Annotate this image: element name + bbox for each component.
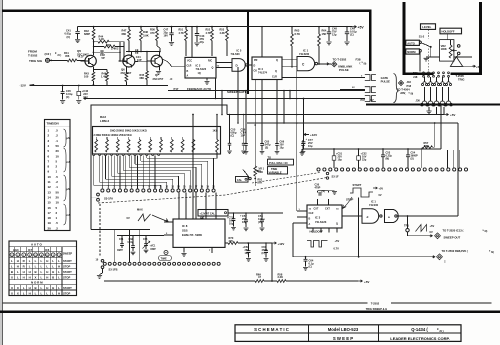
svg-text:PULL MAG ×10: PULL MAG ×10 xyxy=(269,161,288,165)
dashed link CAL to S3-1F region xyxy=(252,173,320,184)
diamond connector to T-4504 xyxy=(398,80,403,85)
wire long rail W1 y=98.5 xyxy=(84,97,88,99)
wire lower input to NAND xyxy=(282,66,297,68)
svg-text:T-2502: T-2502 xyxy=(28,53,38,57)
IC4 VCC pin wire to rail xyxy=(261,27,263,57)
+5V arrow in trigger box xyxy=(463,65,472,67)
svg-text:+5V: +5V xyxy=(358,25,365,29)
svg-text:Q7: Q7 xyxy=(155,73,159,77)
svg-text:10μ: 10μ xyxy=(308,144,313,148)
wire Q7 to IC2 xyxy=(162,59,168,62)
svg-text:μS: μS xyxy=(67,137,71,140)
svg-text:EHM-7I7- 528K: EHM-7I7- 528K xyxy=(182,233,203,237)
svg-text:0V: 0V xyxy=(127,216,130,220)
svg-text:IC7: IC7 xyxy=(28,248,33,252)
svg-text:14: 14 xyxy=(48,195,52,199)
svg-text:CLR: CLR xyxy=(309,212,314,215)
wire RA2 1K terminal into staircase xyxy=(216,154,218,158)
svg-text:74LS74: 74LS74 xyxy=(258,70,268,74)
triangle glyph in trigger box xyxy=(450,57,462,67)
svg-text:(C): (C) xyxy=(66,96,70,99)
svg-text:5P: 5P xyxy=(102,56,105,60)
trigger box bottom-right heavy edge xyxy=(451,72,482,74)
svg-text:0.7V: 0.7V xyxy=(334,247,340,251)
svg-text:/9): /9) xyxy=(364,63,367,66)
IC8 top pin stubs xyxy=(178,192,180,219)
wire from R57 up to W3 xyxy=(433,146,435,148)
heavy vertical divider at x=248 xyxy=(247,10,249,94)
svg-text:1MΩ 250KΩ 50KΩ 10KΩ 2.5KΩ: 1MΩ 250KΩ 50KΩ 10KΩ 2.5KΩ xyxy=(110,129,147,132)
svg-text:(: ( xyxy=(360,61,361,65)
svg-text:.1: .1 xyxy=(56,185,59,189)
svg-text:470: 470 xyxy=(150,31,155,35)
svg-text:2SC1757: 2SC1757 xyxy=(153,77,164,81)
svg-text:L: L xyxy=(46,264,48,268)
risers from S3-1FB contacts xyxy=(114,230,116,263)
svg-text:MAX: MAX xyxy=(137,208,143,212)
wire IC2 pin down to gnd cap xyxy=(245,91,247,140)
svg-text:P18: P18 xyxy=(407,84,412,88)
svg-text:IC 3: IC 3 xyxy=(315,216,321,220)
svg-text:START: START xyxy=(63,286,72,290)
wire vertical from W3 to NAND output xyxy=(457,123,459,216)
svg-text:Q-1434 (: Q-1434 ( xyxy=(411,327,428,332)
svg-text:22μ: 22μ xyxy=(362,158,367,161)
wire input to R41 xyxy=(50,59,68,61)
wire long rail W2 y=114.5 xyxy=(227,114,444,116)
IC2 VCC pin wire to rail xyxy=(191,27,193,58)
waveform at TP1 xyxy=(416,225,427,232)
RA2 bottom terminal loops xyxy=(92,154,95,156)
svg-text:2.2K: 2.2K xyxy=(278,275,284,279)
svg-text:20: 20 xyxy=(56,149,60,153)
svg-text:H: H xyxy=(46,259,48,263)
svg-text:50: 50 xyxy=(56,190,60,194)
svg-text:S1-2: S1-2 xyxy=(419,35,425,39)
svg-text:IC 4: IC 4 xyxy=(258,67,263,71)
wire vertical x=441 bus to +12V rail xyxy=(440,105,442,149)
svg-text:A U T O: A U T O xyxy=(31,243,43,247)
wires IC2 to IC5 gate xyxy=(216,61,232,63)
svg-text:TRIG SWEEP & H: TRIG SWEEP & H xyxy=(366,307,388,311)
outer box around RA2 and timing switch xyxy=(91,105,227,230)
dashed link LEVEL to switch xyxy=(428,29,430,38)
RA2 internal resistors xyxy=(95,140,98,152)
svg-text:PULSE: PULSE xyxy=(339,68,349,72)
svg-text:100: 100 xyxy=(84,75,89,79)
svg-text:IC 5: IC 5 xyxy=(237,49,242,53)
svg-text:10μ: 10μ xyxy=(280,147,285,150)
svg-text:B: B xyxy=(11,270,13,274)
svg-text:12: 12 xyxy=(48,185,52,189)
svg-text:CAL: CAL xyxy=(237,178,243,182)
svg-text:NORM: NORM xyxy=(407,50,416,54)
svg-text:+12V: +12V xyxy=(310,133,317,137)
svg-text:H: H xyxy=(29,286,31,290)
svg-text:74LS123: 74LS123 xyxy=(196,67,207,71)
svg-text:+12V: +12V xyxy=(278,242,285,246)
svg-text:L: L xyxy=(41,275,43,279)
svg-text:H: H xyxy=(29,270,31,274)
vertical wire x=255 from IC4 to VR1 xyxy=(254,80,256,167)
svg-text:CXT: CXT xyxy=(314,207,319,210)
svg-text:H: H xyxy=(29,291,31,295)
connector F19 J19 upper xyxy=(365,75,376,81)
switch S3-1F contact row xyxy=(317,168,320,171)
svg-text:μS: μS xyxy=(67,188,71,191)
svg-text:Q: Q xyxy=(212,66,214,69)
svg-text:P37: P37 xyxy=(361,99,366,102)
svg-text:10: 10 xyxy=(56,201,60,205)
svg-text:(C): (C) xyxy=(231,134,235,138)
wire IC2 pin down to W1 xyxy=(215,78,217,99)
RA2 resistor network box xyxy=(93,127,221,155)
svg-text:H: H xyxy=(23,275,25,279)
svg-text:S1B: S1B xyxy=(182,229,188,233)
svg-text:13: 13 xyxy=(48,190,52,194)
svg-text:-O: -O xyxy=(170,78,173,81)
svg-text:HG3: HG3 xyxy=(13,248,19,252)
ground under bus xyxy=(428,107,430,111)
svg-text:.5: .5 xyxy=(56,221,59,225)
svg-text:IC 1: IC 1 xyxy=(371,200,376,204)
svg-text:H: H xyxy=(29,275,31,279)
svg-text:L: L xyxy=(46,291,48,295)
switch S3-1F wiper xyxy=(326,172,328,174)
svg-text:3.9K: 3.9K xyxy=(143,33,149,37)
transistor Q6 2SC1907 xyxy=(123,55,135,67)
ground under C41 xyxy=(75,40,80,43)
boxed label AUTO xyxy=(406,40,420,45)
svg-text:+5V: +5V xyxy=(335,239,340,243)
wire feedback to Q6 base xyxy=(123,42,125,61)
second output line to T-2502 xyxy=(293,256,434,258)
NAND gate IC1-D xyxy=(362,209,379,223)
svg-text:L: L xyxy=(23,291,25,295)
svg-text:.2: .2 xyxy=(56,226,59,230)
bottom heavy rule xyxy=(0,311,500,313)
svg-text:A: A xyxy=(309,223,311,226)
wire IC3 output to NAND D xyxy=(342,215,362,217)
svg-text:J36: J36 xyxy=(416,99,421,103)
svg-text:680P: 680P xyxy=(84,32,90,36)
boxed label LEVEL xyxy=(421,24,436,30)
svg-text:X: X xyxy=(11,291,13,295)
wire IC8 pin 2 extension left xyxy=(117,235,164,237)
svg-text:+5V: +5V xyxy=(379,187,384,190)
risers contacts 1-10 to RA2 terminal row xyxy=(101,156,103,189)
IC4 74LS74 box xyxy=(252,57,282,80)
svg-text:S W E E P: S W E E P xyxy=(333,336,353,341)
svg-text:CLR: CLR xyxy=(187,65,192,68)
svg-text:X: X xyxy=(17,291,19,295)
svg-text:Q: Q xyxy=(276,59,278,62)
svg-text:IC 1: IC 1 xyxy=(303,49,309,53)
mechanical dashed link down to S3-1FB xyxy=(99,204,101,256)
svg-text:6.7K: 6.7K xyxy=(295,32,301,36)
mechanical dashed link wiper to S3-1F xyxy=(98,178,327,204)
trigger box left heavy edge xyxy=(403,2,406,75)
svg-text:(C): (C) xyxy=(350,33,354,37)
svg-text:OMIT: OMIT xyxy=(117,250,123,252)
svg-text:mS: mS xyxy=(67,161,71,164)
wire x=193 from W2 down to IC8 xyxy=(192,115,194,220)
wire RA2 1K to W2 xyxy=(216,115,218,138)
IC8 left pin stubs xyxy=(164,221,173,223)
svg-text:P18: P18 xyxy=(413,71,418,75)
svg-text:LEADER ELECTRONICS CORP.: LEADER ELECTRONICS CORP. xyxy=(390,336,450,341)
IC8 bottom pins and ground xyxy=(183,247,185,252)
IC8 sweep generator box xyxy=(173,219,225,247)
wire NORM contact down to pin row xyxy=(419,52,421,71)
svg-text:Q: Q xyxy=(336,223,338,226)
svg-text:≡: ≡ xyxy=(444,260,446,264)
svg-text:L: L xyxy=(11,259,13,263)
svg-text:/9 ): /9 ) xyxy=(440,329,444,333)
svg-text:D: D xyxy=(254,64,256,67)
wire +5V rail left end into C41 xyxy=(77,27,79,32)
svg-text:X: X xyxy=(35,275,37,279)
svg-text:H: H xyxy=(46,275,48,279)
wire Q6 collector node xyxy=(130,52,132,56)
svg-text:STOP: STOP xyxy=(63,264,70,268)
wire NAND A output to vertical riser xyxy=(397,215,458,217)
wire across trigger box y=57 xyxy=(431,56,472,58)
svg-text:10d: 10d xyxy=(83,96,88,99)
svg-text:S3-1FA: S3-1FA xyxy=(104,196,113,200)
wire NAND out to unblank diamond xyxy=(318,63,331,65)
svg-text:H: H xyxy=(46,286,48,290)
svg-text:L: L xyxy=(58,259,60,263)
svg-text:TO T-2302: TO T-2302 xyxy=(333,57,347,61)
svg-text:B: B xyxy=(52,275,54,279)
wire from +12V box to caps xyxy=(228,212,283,214)
boxed label +12V AT CAL O xyxy=(198,210,228,217)
svg-text:TO T-4504: TO T-4504 xyxy=(397,88,410,92)
vertical wire x=272 to y281 line xyxy=(271,243,273,281)
svg-text:H: H xyxy=(17,259,19,263)
top heavy border bar xyxy=(2,9,372,12)
svg-text:T-2502: T-2502 xyxy=(371,301,380,305)
ground in trigger box xyxy=(424,58,429,61)
svg-text:/9 ): /9 ) xyxy=(58,53,62,57)
svg-text:H: H xyxy=(23,270,25,274)
svg-text:/9): /9) xyxy=(485,230,488,233)
svg-text:4.7K: 4.7K xyxy=(179,32,184,35)
resistor chain line y=281 with R69 R58 xyxy=(104,280,255,282)
svg-text:(C2 (: (C2 ( xyxy=(45,52,52,56)
svg-text:STOP: STOP xyxy=(63,291,70,295)
svg-text:TIME: TIME xyxy=(161,257,167,261)
wire rail +5V top y=26 xyxy=(78,26,352,28)
boxed label TIME VARIABLE xyxy=(268,167,288,174)
wire IC4 pin down to gnd cap x277 xyxy=(276,80,278,141)
svg-text:16V: 16V xyxy=(164,34,169,37)
left page margin strip xyxy=(0,0,2,345)
svg-text:.2: .2 xyxy=(56,134,59,138)
svg-text:mS: mS xyxy=(67,214,71,217)
risers from S3-1F row xyxy=(447,150,449,168)
diamond connector RB6 P20 xyxy=(437,254,443,260)
svg-text:1.4K: 1.4K xyxy=(101,75,107,79)
svg-text:Q: Q xyxy=(275,70,277,73)
svg-text:TO T-2520 IC13 (: TO T-2520 IC13 ( xyxy=(443,229,464,233)
wire Q7 collector xyxy=(159,52,161,56)
svg-text:H: H xyxy=(52,286,54,290)
wire feedback rail y=90.6 xyxy=(168,90,365,92)
staircase wiring from RA2 terminals to contacts 11-20 xyxy=(93,156,95,186)
left border line xyxy=(2,0,4,345)
svg-text:L: L xyxy=(58,270,60,274)
svg-text:11: 11 xyxy=(48,180,51,184)
svg-text:17: 17 xyxy=(48,211,52,215)
svg-text:1Q: 1Q xyxy=(198,72,201,75)
svg-text:10μ: 10μ xyxy=(338,158,343,161)
svg-text:L: L xyxy=(58,275,60,279)
svg-text:CLR: CLR xyxy=(272,75,277,78)
+5V arrow right of W2 xyxy=(443,107,445,115)
svg-text:T-2505: T-2505 xyxy=(456,74,465,78)
svg-text:H: H xyxy=(17,264,19,268)
svg-text:27K: 27K xyxy=(258,180,263,184)
resistor R70 470 and +12V arrow xyxy=(225,242,228,244)
wire IC2 pin down to W2 xyxy=(221,91,223,115)
wire IC4 Q output to NAND xyxy=(282,59,297,61)
wire from W1 down to +12V arrow xyxy=(303,99,305,135)
svg-text:J26(: J26( xyxy=(400,91,405,95)
ground under IC2 xyxy=(206,78,208,81)
svg-text:P36: P36 xyxy=(416,102,421,106)
svg-text:.1: .1 xyxy=(56,139,59,143)
svg-text:10: 10 xyxy=(48,175,52,179)
trigger box right heavy edge xyxy=(479,2,482,75)
svg-text:START: START xyxy=(63,259,72,263)
svg-text:N O R M: N O R M xyxy=(31,281,43,285)
svg-text:CK: CK xyxy=(254,69,258,72)
svg-text:VARIABLE: VARIABLE xyxy=(269,170,282,174)
svg-text:d: d xyxy=(367,215,369,219)
svg-text:TRIG SIG: TRIG SIG xyxy=(29,59,43,63)
bottom separator line with T-2502 note xyxy=(3,302,368,304)
svg-text:START: START xyxy=(63,270,72,274)
svg-text:C63: C63 xyxy=(143,238,148,241)
connector F19 J19 lower xyxy=(365,87,376,93)
transistor Q7 2SC1757 xyxy=(151,55,163,67)
heavy vertical divider right of main block xyxy=(369,10,372,71)
svg-text:.5: .5 xyxy=(56,129,59,133)
svg-text:16: 16 xyxy=(48,206,52,210)
svg-text:L: L xyxy=(41,259,43,263)
wire IC4 pin down to W3 x284 xyxy=(283,91,285,123)
svg-text:HOLDOFF: HOLDOFF xyxy=(442,30,455,34)
svg-text:74LS123: 74LS123 xyxy=(315,220,327,224)
arrow from +12V box to IC8 xyxy=(200,216,204,219)
svg-text:X: X xyxy=(11,286,13,290)
title block frame xyxy=(235,325,461,342)
svg-text:C61: C61 xyxy=(119,238,124,241)
svg-text:CXT: CXT xyxy=(325,207,330,210)
svg-text:L: L xyxy=(41,291,43,295)
svg-text:L: L xyxy=(17,270,19,274)
svg-text:2.5MΩ 500KΩ 100KΩ 25KΩ 5KΩ: 2.5MΩ 500KΩ 100KΩ 25KΩ 5KΩ xyxy=(94,134,132,137)
svg-text:.5: .5 xyxy=(56,175,59,179)
svg-text:L: L xyxy=(35,259,37,263)
svg-text:TRIG: TRIG xyxy=(458,78,464,82)
svg-text:L: L xyxy=(41,286,43,290)
wire long rail W3 y=123 xyxy=(247,122,458,124)
heavy bus line exiting right at y=104 xyxy=(366,103,500,105)
svg-text:74LS00: 74LS00 xyxy=(369,203,379,207)
ground under C48 xyxy=(326,42,331,45)
IC5 NAND gate xyxy=(232,59,245,72)
svg-text:TP1: TP1 xyxy=(404,223,409,227)
ground under C49 xyxy=(344,42,349,45)
svg-text:(C): (C) xyxy=(309,266,313,269)
resistor R49 680 Q6 emitter xyxy=(125,67,127,73)
svg-text:VCC: VCC xyxy=(187,60,192,63)
ground under S3-1FB wiper xyxy=(102,269,104,274)
svg-text:(S): (S) xyxy=(265,147,268,150)
svg-text:.2: .2 xyxy=(56,180,59,184)
NAND gate IC1-C xyxy=(297,57,315,71)
svg-text:SWEEP: SWEEP xyxy=(63,251,73,255)
IC3 bottom pins xyxy=(312,228,314,233)
svg-text:Q6: Q6 xyxy=(121,67,125,71)
wire Q6 to Q7 base xyxy=(135,60,152,63)
svg-text:L: L xyxy=(35,291,37,295)
svg-text:X: X xyxy=(11,275,13,279)
boxed label NORM xyxy=(406,49,420,54)
svg-text:/9): /9) xyxy=(491,251,494,254)
potentiometer VR2 100K with frame xyxy=(440,40,454,62)
input terminal xyxy=(46,58,50,62)
svg-text:A: A xyxy=(187,74,189,77)
brace for gate pulse group xyxy=(394,74,399,103)
svg-text:PR: PR xyxy=(254,59,258,62)
svg-text:SWEEP OUT: SWEEP OUT xyxy=(444,236,461,240)
svg-text:0V: 0V xyxy=(379,194,382,197)
switch S3-1FA wiper xyxy=(97,193,100,196)
switch contacts right in trigger box xyxy=(457,45,460,48)
svg-text:IC6: IC6 xyxy=(45,248,50,252)
svg-text:68K: 68K xyxy=(140,77,145,80)
svg-text:L: L xyxy=(29,259,31,263)
svg-text:TO T-2502 RB6,P20 (: TO T-2502 RB6,P20 ( xyxy=(442,249,468,253)
svg-text:TIME/DIV: TIME/DIV xyxy=(47,122,60,126)
svg-text:10μ: 10μ xyxy=(229,223,234,226)
svg-text:15K: 15K xyxy=(322,32,327,36)
waveform holdoff pulses xyxy=(307,241,328,248)
ground under C47 xyxy=(169,43,174,46)
wire to gate pulse connector upper xyxy=(282,77,365,79)
svg-text:IC 8: IC 8 xyxy=(182,224,188,228)
svg-text:PULSE: PULSE xyxy=(381,79,390,83)
svg-text:50: 50 xyxy=(56,144,60,148)
svg-text:+5V: +5V xyxy=(364,280,369,284)
svg-text:H: H xyxy=(58,264,60,268)
svg-text:19: 19 xyxy=(48,221,52,225)
svg-text:(S): (S) xyxy=(411,157,414,160)
svg-text:20: 20 xyxy=(56,195,60,199)
svg-text:B: B xyxy=(309,218,311,221)
svg-text:+12V AT CAL: +12V AT CAL xyxy=(200,212,216,215)
svg-text:L: L xyxy=(41,270,43,274)
trigger box bottom-left heavy edge xyxy=(403,72,434,74)
svg-text:+VC1: +VC1 xyxy=(150,245,157,247)
svg-text:10: 10 xyxy=(56,154,60,158)
ground under Q7 emitter xyxy=(159,67,161,71)
varicap VC1 and TIME label xyxy=(164,251,168,255)
